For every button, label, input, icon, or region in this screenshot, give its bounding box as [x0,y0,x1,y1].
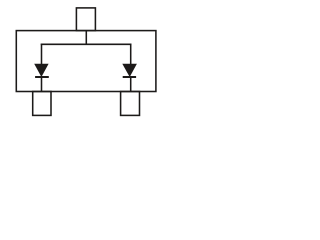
wire left drop to D1 anode [41,44,43,65]
wire horizontal branch (common anode bus) [41,43,132,45]
pin 2 lead (bottom right) [121,92,140,116]
wire D2 cathode to package bottom [130,77,132,92]
wire D1 cathode to package bottom [41,77,43,92]
wire right drop to D2 anode [130,44,132,65]
diode D2 anode triangle [122,64,137,77]
pin 1 lead (bottom left) [33,92,51,116]
package body outline [16,31,156,92]
wire from pin 3 into package [85,31,87,45]
diode D2 cathode bar [123,76,136,78]
pin 3 lead (top) [76,8,95,31]
diode D1 anode triangle [34,64,48,77]
diode D1 cathode bar [35,76,49,78]
